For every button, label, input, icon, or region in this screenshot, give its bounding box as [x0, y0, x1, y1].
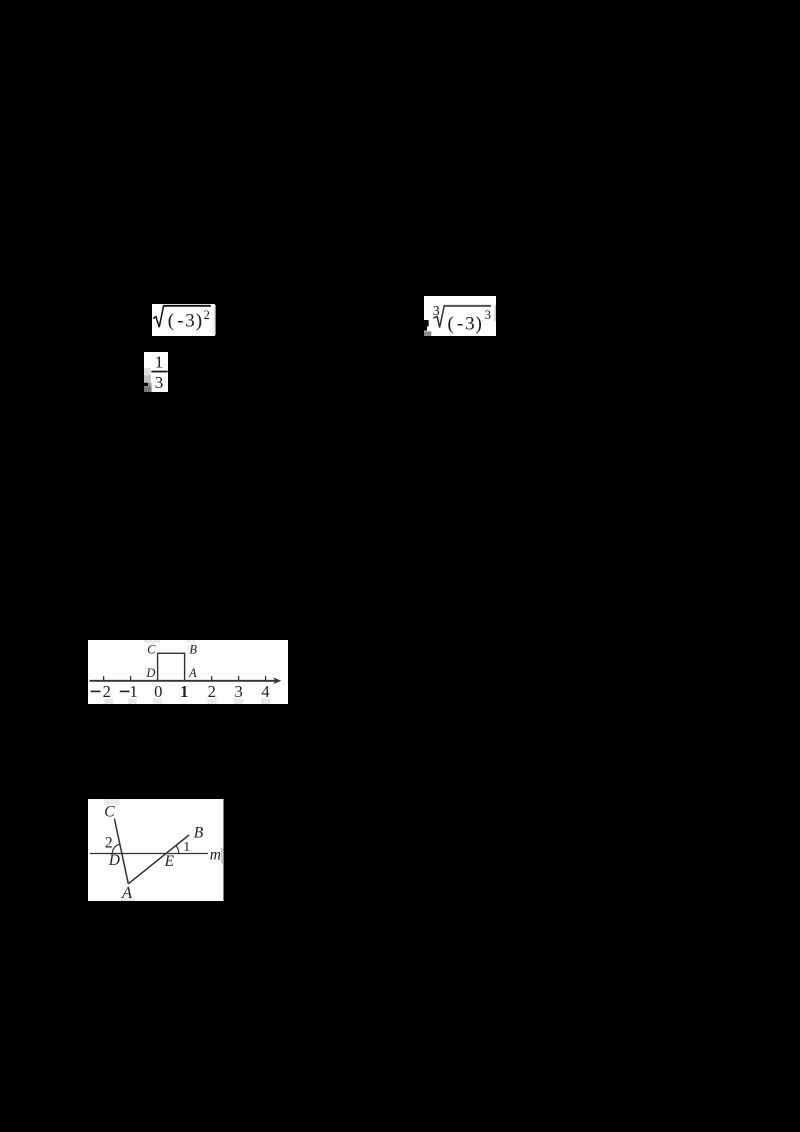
svg-text:D: D	[108, 852, 120, 869]
tick -2	[103, 676, 105, 681]
number line axis	[90, 680, 277, 682]
svg-text:-: -	[457, 313, 463, 334]
tick 3	[238, 676, 240, 681]
svg-text:3: 3	[155, 373, 164, 392]
minus sign of -1	[120, 691, 130, 693]
svg-text:B: B	[189, 642, 197, 656]
vinculum of cube root	[444, 305, 491, 307]
svg-text:2: 2	[208, 682, 216, 701]
svg-text:B: B	[194, 824, 204, 841]
svg-text:3: 3	[185, 310, 195, 331]
text (-3) under sqrt	[168, 310, 202, 331]
svg-text:(: (	[168, 310, 174, 331]
black punctuation mark overlapping cube-root box bottom-left	[424, 320, 429, 331]
svg-text:m: m	[210, 847, 221, 864]
gray artifact patches on fraction box left edge	[141, 368, 152, 392]
radical sign of cube root	[433, 306, 490, 328]
svg-text:3: 3	[433, 303, 440, 318]
segment C-D-A	[114, 819, 128, 884]
formula image cuberoot((-3)^3) white box	[424, 296, 496, 336]
number line figure white box	[88, 640, 288, 704]
angle arc 1 at E	[176, 846, 179, 854]
radical sign of sqrt((-3)^2)	[153, 306, 211, 327]
svg-text:0: 0	[154, 682, 162, 701]
tick -1	[130, 676, 132, 681]
svg-text:D: D	[145, 666, 155, 680]
svg-text:): )	[196, 310, 202, 331]
svg-text:(: (	[448, 313, 454, 334]
svg-text:3: 3	[485, 308, 491, 322]
angle arc 2 at D	[112, 844, 120, 853]
axis arrow head	[273, 678, 281, 685]
geometry figure white box	[88, 799, 224, 901]
axis numerals	[103, 682, 270, 701]
svg-text:): )	[476, 313, 482, 334]
fraction bar	[151, 371, 167, 373]
text (-3) under cube root	[448, 313, 482, 334]
svg-text:E: E	[164, 853, 175, 870]
fraction 1/3 white box	[144, 352, 168, 392]
svg-text:2: 2	[103, 682, 111, 701]
square CBAD on number line	[158, 653, 185, 681]
svg-text:2: 2	[105, 835, 113, 852]
svg-text:-: -	[177, 310, 183, 331]
minus sign of -2	[91, 691, 101, 693]
svg-text:C: C	[104, 804, 115, 821]
tick 2	[211, 676, 213, 681]
vinculum of sqrt	[164, 305, 211, 307]
svg-text:2: 2	[204, 308, 210, 322]
svg-text:4: 4	[261, 682, 269, 701]
segment A-E-B	[128, 835, 189, 884]
svg-text:A: A	[121, 883, 133, 902]
svg-text:C: C	[147, 642, 156, 656]
svg-text:3: 3	[465, 313, 475, 334]
svg-text:1: 1	[180, 682, 188, 701]
svg-text:A: A	[188, 666, 197, 680]
gray square artifact at cube-root box bottom-left	[424, 331, 431, 336]
tick 4	[265, 676, 267, 681]
formula image sqrt((-3)^2) white box	[152, 304, 216, 336]
svg-text:1: 1	[155, 352, 164, 371]
line m	[90, 853, 208, 855]
svg-text:3: 3	[234, 682, 242, 701]
svg-text:1: 1	[183, 840, 190, 855]
svg-text:1: 1	[129, 682, 137, 701]
